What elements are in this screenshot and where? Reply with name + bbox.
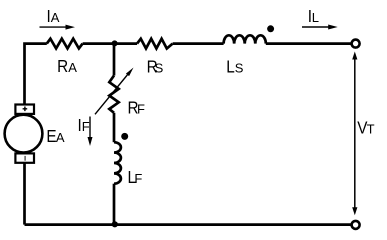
svg-text:F: F <box>137 102 145 117</box>
wire LS to top-right terminal <box>266 42 351 45</box>
arrow IA <box>40 25 76 30</box>
svg-text:F: F <box>134 171 142 186</box>
node junction bottom <box>112 221 118 227</box>
svg-text:A: A <box>51 10 60 25</box>
arrow IL <box>302 25 338 30</box>
label IL <box>308 6 319 26</box>
terminal top right <box>352 40 360 48</box>
svg-text:R: R <box>57 56 68 76</box>
rheostat RF zigzag <box>109 76 118 113</box>
voltage arrow VT <box>352 52 357 216</box>
label IF <box>78 115 90 135</box>
svg-text:S: S <box>235 60 244 75</box>
rheostat RF arrow <box>95 68 134 115</box>
label VT <box>357 117 374 137</box>
label RS <box>147 56 164 76</box>
wire bottom <box>25 223 351 226</box>
polarity dot LS <box>267 25 274 32</box>
wire RS to LS <box>173 42 224 45</box>
polarity dot LF <box>121 133 128 140</box>
motor brush bottom <box>15 153 34 162</box>
label IA <box>46 6 59 26</box>
svg-text:F: F <box>82 119 90 134</box>
label RF <box>128 97 146 117</box>
wire top from left corner to R_A <box>25 44 47 105</box>
wire left bottom <box>23 163 26 225</box>
wire field branch top <box>113 44 116 76</box>
node junction top <box>112 40 118 46</box>
label LF <box>128 167 143 187</box>
label LS <box>226 56 243 76</box>
svg-text:T: T <box>367 121 375 136</box>
svg-text:L: L <box>312 10 319 25</box>
svg-text:S: S <box>155 61 164 76</box>
svg-text:L: L <box>226 56 235 76</box>
motor armature EA circle <box>5 115 43 153</box>
resistor RA <box>47 39 83 49</box>
wire LF to bottom <box>113 184 116 225</box>
terminal bottom right <box>352 221 360 229</box>
svg-text:A: A <box>56 130 65 145</box>
resistor RS <box>137 39 173 49</box>
label EA <box>46 126 64 146</box>
inductor LS <box>224 35 266 43</box>
label RA <box>57 56 77 76</box>
motor brush top <box>15 105 34 114</box>
wire RF to LF <box>113 113 116 142</box>
wire RA to RS <box>83 42 138 45</box>
inductor LF <box>114 142 121 184</box>
svg-text:A: A <box>68 60 77 75</box>
arrow IF <box>88 117 93 147</box>
